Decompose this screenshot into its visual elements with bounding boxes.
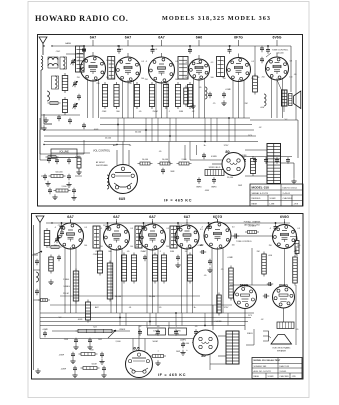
svg-text:DIAL NO.1518-1: DIAL NO.1518-1 <box>283 186 299 189</box>
svg-text:6A7: 6A7 <box>158 36 164 40</box>
svg-text:100: 100 <box>232 245 235 247</box>
svg-text:SHORTENED: SHORTENED <box>96 165 108 167</box>
svg-text:6.3: 6.3 <box>166 228 169 230</box>
svg-text:L.WE: L.WE <box>270 203 276 205</box>
svg-text:DIAL 1518: DIAL 1518 <box>280 365 290 368</box>
svg-text:6V6G: 6V6G <box>280 215 289 219</box>
svg-text:AVC: AVC <box>95 306 100 309</box>
svg-text:.1: .1 <box>167 83 169 85</box>
svg-text:OSC: OSC <box>56 51 61 53</box>
svg-text:.05MF: .05MF <box>59 355 65 357</box>
svg-text:6H6: 6H6 <box>196 36 202 40</box>
svg-text:6A7: 6A7 <box>184 215 190 219</box>
svg-text:10MFD: 10MFD <box>153 330 160 332</box>
svg-text:375V: 375V <box>224 307 229 309</box>
svg-text:8MFD: 8MFD <box>196 187 202 189</box>
svg-text:.05: .05 <box>257 77 260 79</box>
svg-text:80: 80 <box>201 354 205 358</box>
svg-text:6.3: 6.3 <box>200 229 203 231</box>
svg-text:-3: -3 <box>112 61 114 63</box>
svg-text:1ST IF: 1ST IF <box>103 225 110 227</box>
svg-text:2,000: 2,000 <box>115 341 121 343</box>
svg-text:100: 100 <box>141 78 144 80</box>
svg-text:2M: 2M <box>245 103 248 105</box>
svg-text:25,000: 25,000 <box>227 177 234 179</box>
svg-text:50M: 50M <box>179 111 183 113</box>
svg-text:1 MEG: 1 MEG <box>63 279 70 281</box>
svg-text:100: 100 <box>84 245 87 247</box>
svg-text:.02MF: .02MF <box>61 369 67 371</box>
svg-text:6.3: 6.3 <box>232 227 235 229</box>
svg-text:250: 250 <box>96 83 99 85</box>
svg-text:.1MF: .1MF <box>93 254 98 256</box>
svg-text:250M: 250M <box>152 111 157 113</box>
svg-text:HOWARD RADIO CO.: HOWARD RADIO CO. <box>35 14 128 23</box>
svg-text:375V: 375V <box>224 145 229 147</box>
svg-text:-3: -3 <box>269 228 271 230</box>
svg-text:80: 80 <box>225 150 229 154</box>
svg-text:10MFD: 10MFD <box>174 330 181 332</box>
svg-text:8MFD: 8MFD <box>211 187 217 189</box>
svg-text:10,000: 10,000 <box>162 159 169 161</box>
svg-text:CHECKED: CHECKED <box>283 198 293 200</box>
svg-text:CHOKE: CHOKE <box>214 321 222 323</box>
svg-text:6A7: 6A7 <box>113 215 119 219</box>
svg-text:6A7: 6A7 <box>67 215 73 219</box>
svg-text:FOR ALL CHASSIS: FOR ALL CHASSIS <box>244 221 261 224</box>
svg-text:.5 MEG: .5 MEG <box>63 286 70 288</box>
svg-text:.01MF: .01MF <box>197 245 203 247</box>
svg-text:10M: 10M <box>98 339 102 341</box>
svg-text:1 MEG: 1 MEG <box>75 157 81 159</box>
svg-text:GANG: GANG <box>65 42 71 45</box>
svg-text:100: 100 <box>166 246 169 248</box>
svg-text:.01: .01 <box>222 77 225 79</box>
svg-text:SPEAKER: SPEAKER <box>277 349 287 352</box>
svg-text:250: 250 <box>262 77 265 79</box>
svg-text:500M: 500M <box>152 341 157 343</box>
svg-text:-3: -3 <box>201 227 203 229</box>
svg-text:VOLUME: VOLUME <box>59 151 69 153</box>
svg-text:450V: 450V <box>205 190 210 192</box>
svg-text:50,000: 50,000 <box>135 132 142 134</box>
svg-text:.05MF: .05MF <box>42 329 48 331</box>
svg-text:MODEL 318 326 ALI-TEST: MODEL 318 326 ALI-TEST <box>254 359 281 362</box>
svg-text:4 MFD: 4 MFD <box>211 156 218 158</box>
svg-text:DET: DET <box>178 225 183 227</box>
svg-text:2ND IF: 2ND IF <box>151 49 158 51</box>
svg-text:6.3: 6.3 <box>252 61 255 63</box>
svg-text:6F7G: 6F7G <box>240 283 249 287</box>
svg-text:500M: 500M <box>91 364 96 366</box>
svg-text:100: 100 <box>130 246 133 248</box>
svg-text:FIELD: FIELD <box>247 333 253 335</box>
svg-text:500,000: 500,000 <box>276 52 284 54</box>
svg-text:-3: -3 <box>54 227 56 229</box>
svg-text:PAGE: PAGE <box>254 375 260 378</box>
svg-text:250M: 250M <box>140 251 145 253</box>
svg-text:6F7G: 6F7G <box>234 36 243 40</box>
svg-text:6Q7G: 6Q7G <box>213 215 223 219</box>
svg-text:10,000: 10,000 <box>142 159 149 161</box>
svg-text:6V6G: 6V6G <box>273 36 282 40</box>
svg-text:250 M: 250 M <box>63 293 69 295</box>
svg-text:TONE CONTROL: TONE CONTROL <box>236 241 253 243</box>
svg-text:.5MF: .5MF <box>170 171 175 173</box>
svg-text:100: 100 <box>211 77 214 79</box>
svg-text:6.3: 6.3 <box>130 228 133 230</box>
svg-text:6A7: 6A7 <box>90 36 96 40</box>
svg-text:250: 250 <box>77 77 80 79</box>
svg-text:6A7: 6A7 <box>125 36 131 40</box>
svg-text:2M: 2M <box>91 350 94 352</box>
svg-text:25,000: 25,000 <box>105 138 112 140</box>
svg-text:.05MIN: .05MIN <box>119 329 126 331</box>
svg-text:S.SER: S.SER <box>270 198 277 200</box>
svg-text:6U5: 6U5 <box>119 197 125 201</box>
svg-text:250: 250 <box>128 83 131 85</box>
svg-text:OSC: OSC <box>58 225 63 227</box>
svg-text:250: 250 <box>95 251 98 253</box>
svg-text:2-43-61: 2-43-61 <box>283 193 291 195</box>
svg-text:2,000: 2,000 <box>181 159 187 161</box>
svg-text:IF = 465 KC: IF = 465 KC <box>158 373 186 377</box>
svg-text:ABOVE NO. 2264: ABOVE NO. 2264 <box>244 223 259 226</box>
svg-text:AT 465KC: AT 465KC <box>96 161 106 164</box>
svg-text:2-43-61: 2-43-61 <box>280 371 288 373</box>
svg-text:CHOKE: CHOKE <box>239 155 247 157</box>
svg-text:6.3: 6.3 <box>298 228 301 230</box>
svg-text:J.PE: J.PE <box>292 376 297 378</box>
svg-text:SPKR FIELD: SPKR FIELD <box>209 167 221 169</box>
svg-text:2ND IF: 2ND IF <box>143 225 150 227</box>
svg-text:.01MF: .01MF <box>225 89 232 91</box>
svg-text:.0001: .0001 <box>77 319 83 321</box>
svg-text:.01MF: .01MF <box>227 257 234 259</box>
svg-text:6.3: 6.3 <box>211 62 214 64</box>
svg-text:500,000: 500,000 <box>55 172 63 174</box>
svg-text:MODEL-318: MODEL-318 <box>252 186 270 190</box>
svg-text:1ST IF: 1ST IF <box>117 49 124 51</box>
svg-text:250: 250 <box>145 79 148 81</box>
svg-text:250: 250 <box>54 245 57 247</box>
svg-text:6V6G: 6V6G <box>279 283 288 287</box>
svg-text:SCHEM. 363: SCHEM. 363 <box>254 366 268 368</box>
svg-text:50,000: 50,000 <box>115 296 122 298</box>
svg-text:-3: -3 <box>145 61 147 63</box>
svg-text:50M: 50M <box>170 251 174 253</box>
svg-text:ALIG. NO. S-23-TR: ALIG. NO. S-23-TR <box>254 370 272 373</box>
svg-text:MODELS 318,325 MODEL 363: MODELS 318,325 MODEL 363 <box>162 15 271 22</box>
svg-text:25,000: 25,000 <box>183 343 190 345</box>
svg-text:PAGE: PAGE <box>252 202 258 205</box>
svg-text:IF = 465 KC: IF = 465 KC <box>164 199 192 203</box>
svg-text:VOL CONTROL: VOL CONTROL <box>93 150 111 153</box>
svg-text:6.3: 6.3 <box>175 61 178 63</box>
svg-text:6.3: 6.3 <box>141 61 144 63</box>
svg-text:2M: 2M <box>257 251 260 253</box>
svg-text:20MFD: 20MFD <box>180 340 187 342</box>
svg-text:REVISED: REVISED <box>252 198 261 200</box>
svg-text:25,000: 25,000 <box>149 296 156 298</box>
svg-text:DET: DET <box>188 51 193 53</box>
svg-text:10W: 10W <box>176 351 180 353</box>
svg-text:6A7: 6A7 <box>149 215 155 219</box>
svg-text:S.SER: S.SER <box>268 376 275 378</box>
svg-text:10W: 10W <box>238 185 242 187</box>
svg-text:-3: -3 <box>100 228 102 230</box>
svg-text:TONE CONTROL: TONE CONTROL <box>272 49 289 51</box>
svg-text:.1MF: .1MF <box>102 111 107 113</box>
svg-text:2,000: 2,000 <box>61 186 67 188</box>
svg-text:250: 250 <box>269 245 272 247</box>
svg-text:J.P.E: J.P.E <box>294 203 299 205</box>
svg-text:.0001: .0001 <box>93 129 99 131</box>
svg-text:SERIAL S-23-TR: SERIAL S-23-TR <box>252 192 269 195</box>
svg-text:ELECTRODYNAMIC: ELECTRODYNAMIC <box>273 347 291 350</box>
svg-text:CHECKED: CHECKED <box>280 376 290 378</box>
svg-text:6.3: 6.3 <box>84 227 87 229</box>
